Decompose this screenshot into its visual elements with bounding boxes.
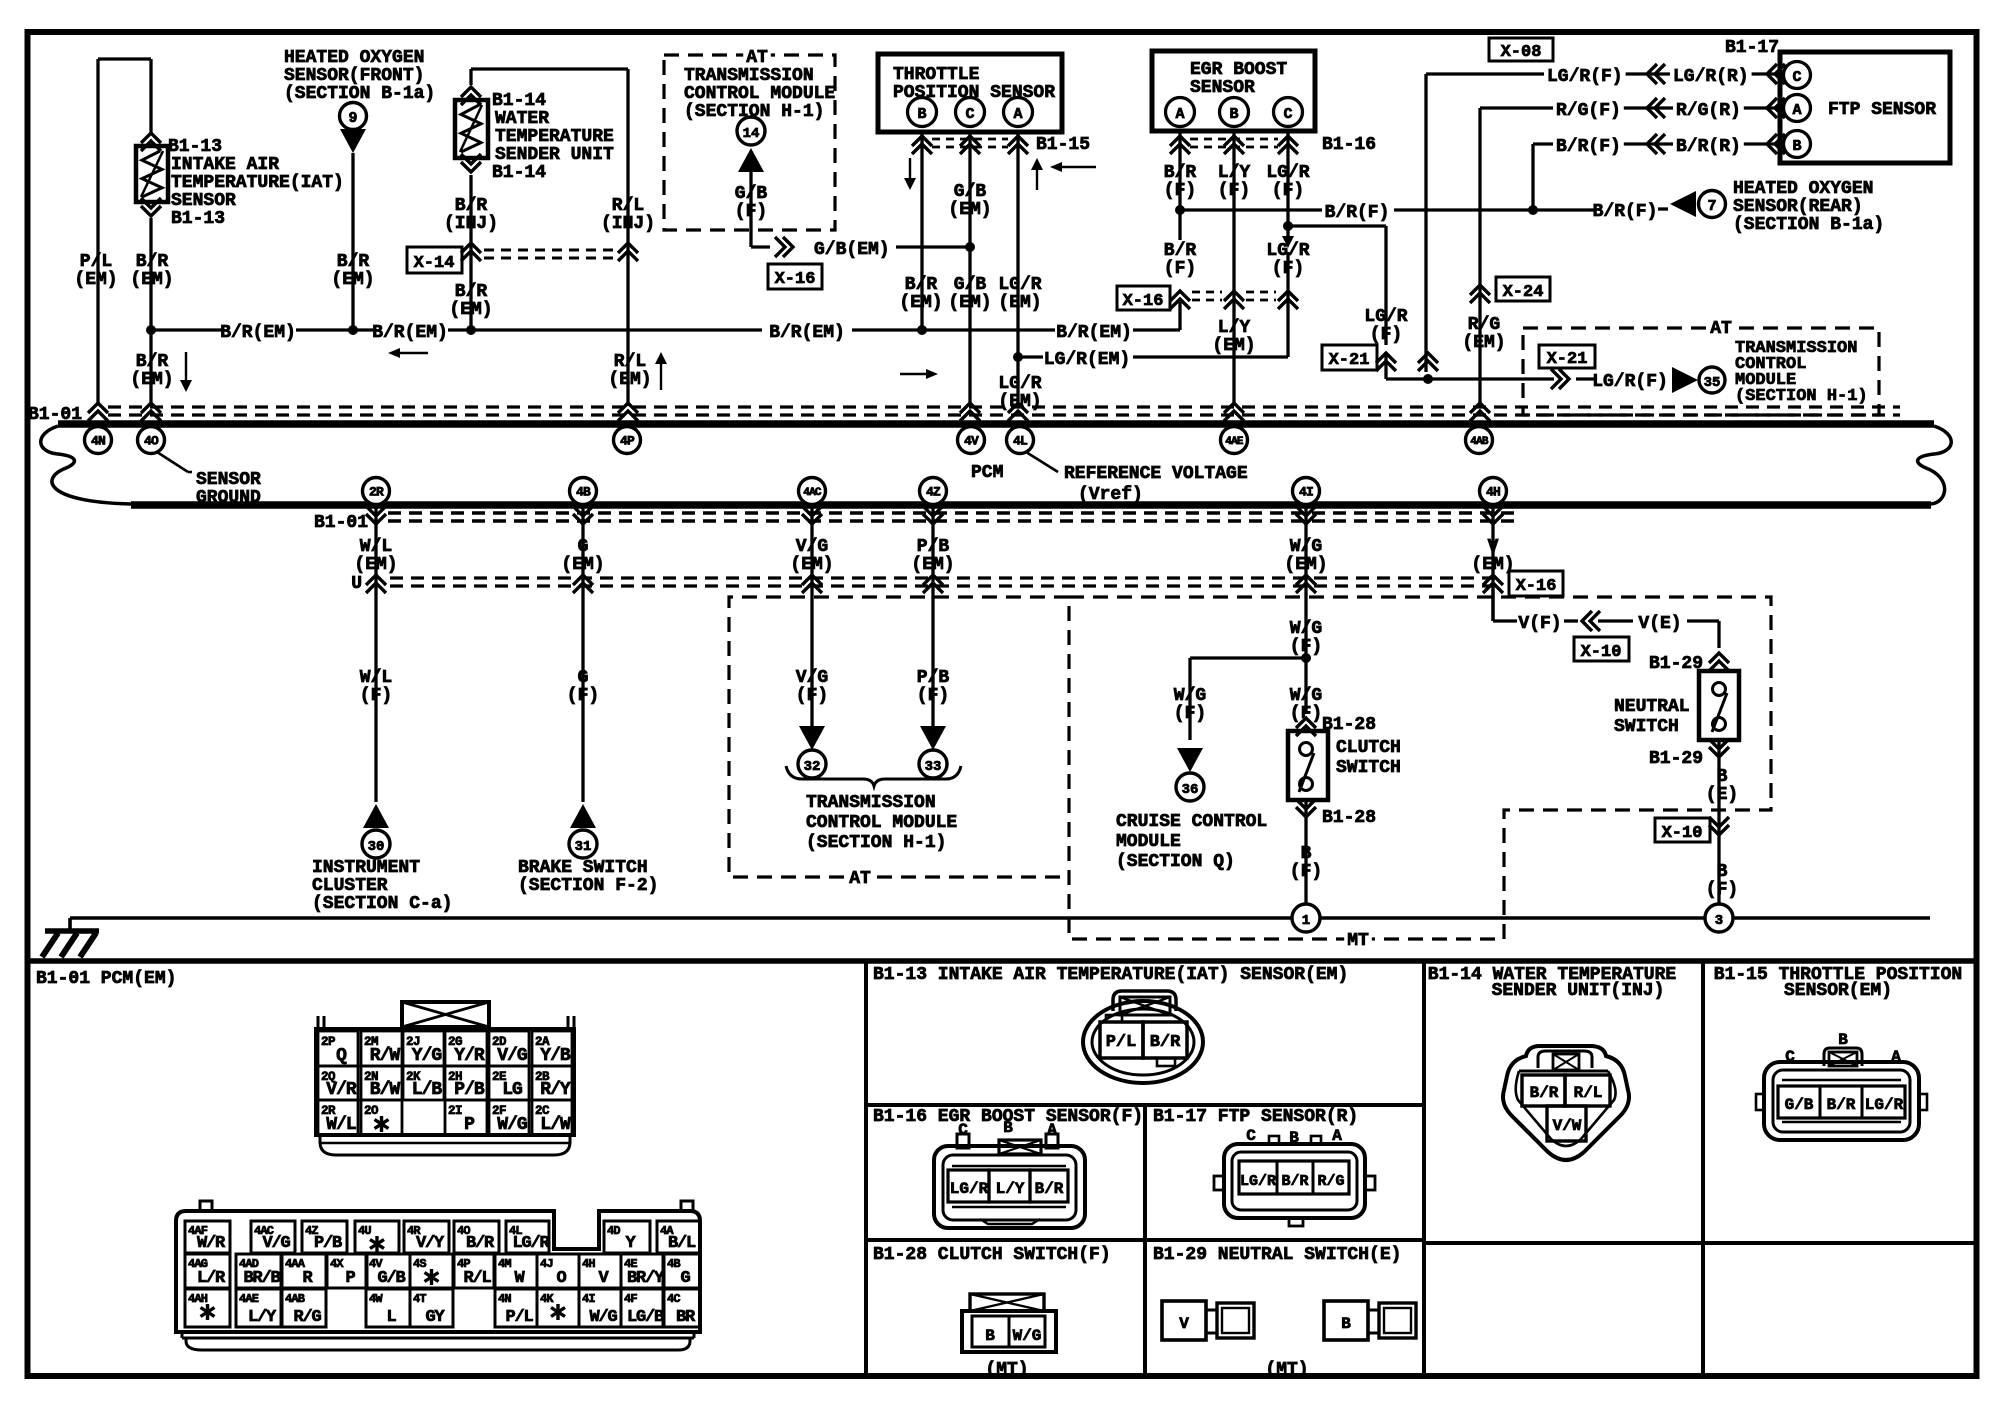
svg-text:FTP SENSOR: FTP SENSOR (1828, 100, 1936, 120)
svg-text:L: L (386, 1308, 396, 1327)
svg-text:LG/R: LG/R (1266, 241, 1309, 261)
node 31 brake switch (569, 830, 597, 858)
svg-text:SWITCH: SWITCH (1336, 758, 1401, 778)
arrow down on TPS B wire (904, 158, 916, 190)
svg-text:B/R: B/R (1827, 1096, 1856, 1114)
svg-text:B/W: B/W (370, 1080, 401, 1100)
arrow into cruise control module (1177, 748, 1203, 772)
AT transmission control module dashed box (left) (664, 45, 835, 230)
labels B/R L/Y LG/R (F) (1164, 163, 1310, 201)
PCM bus upper bar with S-curl ends (41, 424, 1952, 504)
svg-text:L/Y: L/Y (248, 1308, 277, 1327)
label B1-01 top bus (28, 405, 82, 425)
svg-text:V/R: V/R (326, 1080, 357, 1100)
svg-text:B/R: B/R (455, 282, 488, 302)
svg-text:W/L: W/L (326, 1115, 356, 1135)
svg-text:4X: 4X (330, 1257, 344, 1271)
label B/R (EM) WTS (449, 282, 492, 320)
svg-text:(F): (F) (1290, 704, 1322, 724)
svg-text:G/B: G/B (377, 1269, 405, 1288)
label R/L (INJ) (601, 196, 655, 234)
node 33 TCM (919, 750, 947, 778)
label B1-15 section title (1714, 965, 1962, 1001)
transistor clutch switch symbol (1288, 731, 1328, 800)
svg-text:B/R(EM): B/R(EM) (769, 323, 845, 343)
svg-text:B1-01: B1-01 (28, 405, 82, 425)
connector chevron B1-29 bottom (1649, 739, 1729, 769)
connector X-14 label box (407, 247, 462, 273)
svg-text:W/G: W/G (1174, 686, 1206, 706)
connector B1-01 PCM 4x-row plug (176, 1201, 700, 1350)
svg-text:(F): (F) (1706, 880, 1738, 900)
label TRANSMISSION CONTROL MODULE (SECTION H-1) (806, 793, 957, 853)
svg-text:P/B: P/B (454, 1080, 485, 1100)
svg-text:(EM): (EM) (998, 293, 1041, 313)
connector B1-17 FTP plug (1214, 1127, 1375, 1226)
svg-text:EGR BOOST: EGR BOOST (1190, 60, 1287, 80)
wire WTS loop R/L (471, 69, 628, 406)
label B/R (EM) below junction with down arrow (130, 352, 192, 392)
svg-text:(EM): (EM) (449, 300, 492, 320)
svg-text:G: G (578, 668, 589, 688)
labels B/R G/B LG/R (EM) row (899, 275, 1041, 313)
connector B1-16 EGR plug (934, 1119, 1085, 1228)
pin B EGR (1220, 98, 1249, 127)
wire R/G(F) corner (1480, 108, 1551, 406)
label W/L (F) (360, 668, 392, 706)
pin A TPS (1004, 98, 1033, 127)
svg-text:MODULE: MODULE (1116, 832, 1181, 852)
svg-text:G/B(EM): G/B(EM) (814, 240, 890, 260)
arrow left on rail (388, 348, 428, 358)
svg-text:4W: 4W (369, 1292, 383, 1306)
svg-text:INSTRUMENT: INSTRUMENT (312, 858, 420, 878)
connector chevron B1-29 top (1649, 653, 1729, 674)
dashed connector rows below lower bus (388, 513, 1520, 521)
svg-text:CLUSTER: CLUSTER (312, 876, 388, 896)
svg-text:(EM): (EM) (998, 392, 1041, 412)
node 36 cruise control (1176, 773, 1204, 801)
svg-text:4I: 4I (1299, 485, 1313, 500)
svg-text:B1-14: B1-14 (492, 163, 546, 183)
svg-text:LG/R: LG/R (512, 1234, 550, 1253)
svg-text:B/R(F): B/R(F) (1325, 203, 1390, 223)
svg-text:P/L: P/L (1106, 1033, 1137, 1052)
svg-text:V(F): V(F) (1518, 614, 1561, 634)
connector chevron below WTS (461, 154, 481, 172)
svg-text:4AB: 4AB (1470, 436, 1489, 448)
op-amp FTP SENSOR box (1780, 52, 1950, 163)
svg-text:B: B (985, 1327, 995, 1345)
svg-text:(MT): (MT) (1265, 1360, 1308, 1380)
pin 4P (614, 427, 641, 454)
svg-text:LG/R: LG/R (998, 374, 1041, 394)
svg-text:B1-13: B1-13 (168, 137, 222, 157)
svg-text:4H: 4H (1486, 485, 1500, 500)
svg-text:X-21: X-21 (1547, 350, 1588, 369)
svg-text:SENSOR(REAR): SENSOR(REAR) (1733, 197, 1863, 217)
connector chevron B1-28 top (1296, 715, 1376, 736)
label L/Y (EM) (1212, 318, 1255, 356)
arrow into brake switch (570, 804, 596, 828)
node 3 ground joint (1705, 904, 1733, 932)
svg-text:(F): (F) (1370, 325, 1402, 345)
svg-text:(F): (F) (567, 686, 599, 706)
svg-text:R/W: R/W (370, 1046, 401, 1066)
pin 4I (1293, 478, 1320, 505)
svg-text:A: A (1047, 1121, 1057, 1139)
svg-text:GROUND: GROUND (196, 488, 261, 508)
svg-text:R/G: R/G (293, 1308, 321, 1327)
svg-text:THROTTLE: THROTTLE (893, 65, 980, 85)
label W/G (F) left branch (1174, 686, 1206, 724)
label B/R (EM) IAT (130, 252, 173, 290)
svg-text:B1-16: B1-16 (1322, 135, 1376, 155)
ground symbol (42, 931, 99, 957)
svg-text:B/R: B/R (1035, 1180, 1064, 1198)
svg-text:BR: BR (676, 1308, 696, 1327)
svg-text:LG/R: LG/R (1364, 307, 1407, 327)
svg-text:R/G(R): R/G(R) (1676, 101, 1741, 121)
svg-text:SENDER UNIT: SENDER UNIT (495, 145, 614, 165)
svg-text:GY: GY (425, 1308, 445, 1327)
svg-text:CONTROL MODULE: CONTROL MODULE (684, 84, 835, 104)
connector X-08 label box (1489, 38, 1553, 62)
svg-text:LG/R(EM): LG/R(EM) (1044, 350, 1130, 370)
svg-text:4AE: 4AE (239, 1292, 259, 1306)
op-amp EGR BOOST SENSOR box (1152, 51, 1315, 131)
svg-text:P/B: P/B (314, 1234, 342, 1253)
dashed interconnect row with U label and X-16 (351, 571, 1563, 596)
svg-text:B/R: B/R (136, 252, 169, 272)
connector X-16 label box (768, 264, 822, 289)
svg-text:(INJ): (INJ) (601, 214, 655, 234)
ground bus wire (70, 918, 1930, 931)
svg-text:LG/R: LG/R (950, 1180, 989, 1198)
wire B/R(F) corner (1533, 144, 1551, 210)
svg-text:B: B (1003, 1119, 1013, 1137)
svg-text:B/R: B/R (1164, 241, 1197, 261)
connector chevron above WTS (461, 87, 481, 105)
wires from lower bus (376, 505, 1493, 802)
svg-text:V/G: V/G (497, 1046, 527, 1066)
connector X-24 chevrons and label (1470, 277, 1550, 303)
brace under nodes 32 33 (786, 766, 961, 786)
svg-text:4D: 4D (607, 1224, 620, 1238)
svg-text:4T: 4T (413, 1292, 426, 1306)
svg-text:P/L: P/L (505, 1308, 533, 1327)
transistor neutral switch symbol (1699, 671, 1739, 740)
arrow into node 35 (1672, 367, 1698, 393)
label B1-14 section title (1428, 965, 1677, 1001)
svg-text:B/R: B/R (136, 352, 169, 372)
svg-text:G/B: G/B (954, 275, 987, 295)
svg-text:B: B (1717, 767, 1728, 787)
svg-text:B: B (1229, 106, 1238, 123)
svg-text:LG/B: LG/B (627, 1308, 664, 1327)
svg-text:X-14: X-14 (414, 254, 455, 273)
svg-text:CLUTCH: CLUTCH (1336, 738, 1401, 758)
arrow up on TPS A wire (1031, 158, 1043, 190)
svg-text:TRANSMISSION: TRANSMISSION (684, 66, 814, 86)
label B1-13 section title (873, 965, 1348, 985)
svg-text:B/R(EM): B/R(EM) (220, 323, 296, 343)
svg-text:30: 30 (368, 839, 385, 855)
svg-text:B1-01 PCM(EM): B1-01 PCM(EM) (36, 969, 176, 989)
connector B1-01 PCM 2x-row plug (316, 1002, 574, 1155)
node 32 TCM (798, 750, 826, 778)
svg-text:4J: 4J (540, 1257, 553, 1271)
svg-text:V/W: V/W (1553, 1117, 1582, 1135)
svg-text:4M: 4M (498, 1257, 511, 1271)
node 14 TCM (737, 117, 765, 145)
svg-text:(INJ): (INJ) (444, 214, 498, 234)
svg-text:(F): (F) (796, 686, 828, 706)
svg-text:P/L: P/L (80, 252, 112, 272)
wire TPS B sensor ground (917, 132, 927, 335)
label B (E) (1706, 767, 1738, 805)
label P/L (EM) (74, 252, 117, 290)
svg-text:O: O (556, 1269, 566, 1288)
svg-text:B1-13 INTAKE AIR TEMPERATURE(I: B1-13 INTAKE AIR TEMPERATURE(IAT) SENSOR… (873, 965, 1348, 985)
svg-text:B: B (917, 106, 926, 123)
svg-text:4Z: 4Z (926, 485, 941, 500)
svg-text:7: 7 (1707, 198, 1716, 215)
svg-text:4K: 4K (540, 1292, 554, 1306)
svg-text:(EM): (EM) (130, 370, 173, 390)
svg-text:4I: 4I (582, 1292, 595, 1306)
label B (F) neutral (1706, 862, 1738, 900)
svg-text:SENDER UNIT(INJ): SENDER UNIT(INJ) (1492, 981, 1665, 1001)
svg-text:LG/R(F): LG/R(F) (1592, 372, 1668, 392)
svg-text:P/B: P/B (917, 668, 950, 688)
svg-text:Y/R: Y/R (454, 1046, 485, 1066)
svg-text:(EM): (EM) (130, 270, 173, 290)
label PCM (971, 463, 1003, 483)
svg-text:Y/B: Y/B (540, 1046, 571, 1066)
svg-text:W/G: W/G (1013, 1327, 1042, 1345)
op-amp THROTTLE POSITION SENSOR box (878, 54, 1062, 132)
pin C FTP (1784, 62, 1811, 89)
pin C EGR (1274, 98, 1303, 127)
svg-text:X-10: X-10 (1662, 824, 1703, 843)
svg-text:P: P (464, 1115, 475, 1135)
connector B1-16 chevrons below EGR (1170, 135, 1376, 155)
svg-text:L/R: L/R (197, 1269, 226, 1288)
wire W/G junction and branch to cruise control (1190, 653, 1311, 740)
svg-text:4P: 4P (620, 434, 635, 449)
svg-text:TRANSMISSION: TRANSMISSION (806, 793, 936, 813)
svg-text:B/R: B/R (466, 1234, 495, 1253)
svg-text:(SECTION H-1): (SECTION H-1) (1735, 387, 1868, 406)
svg-text:SENSOR(FRONT): SENSOR(FRONT) (284, 66, 424, 86)
svg-text:V(E): V(E) (1638, 614, 1681, 634)
wire EGR C LG/R with junction (1282, 132, 1294, 303)
svg-text:W/G: W/G (589, 1308, 617, 1327)
arrow into TCM 32 (799, 726, 825, 750)
svg-text:G: G (680, 1269, 690, 1288)
svg-text:B/L: B/L (668, 1234, 696, 1253)
svg-text:4F: 4F (624, 1292, 637, 1306)
pin C TPS (956, 98, 985, 127)
wire sensor ground rail B/R(EM) (151, 302, 1180, 343)
pin 2R (363, 478, 390, 505)
wire TPS A LG/R to 4L (1013, 132, 1023, 406)
svg-text:R/L: R/L (1574, 1084, 1603, 1102)
svg-text:(F): (F) (917, 686, 949, 706)
label B/R (F) lower (1164, 241, 1197, 279)
pin A FTP (1784, 95, 1811, 122)
svg-text:B1-15: B1-15 (1036, 135, 1090, 155)
label W/G (F) above junction (1290, 619, 1322, 657)
svg-text:(Vref): (Vref) (1078, 485, 1143, 505)
wire LG/R(EM) link to EGR (1018, 303, 1288, 370)
pin 4O (138, 427, 165, 454)
pin 4Z (920, 478, 947, 505)
svg-text:G/B: G/B (1785, 1096, 1814, 1114)
wire V(F) to neutral switch (1493, 589, 1719, 648)
wire G/B (F) from TCM (751, 172, 770, 247)
svg-text:(EM): (EM) (608, 370, 651, 390)
svg-text:B/R: B/R (455, 196, 488, 216)
wire B (F) to node 1 (1304, 800, 1307, 904)
svg-text:2P: 2P (321, 1035, 335, 1049)
svg-text:X-21: X-21 (1329, 351, 1370, 370)
svg-text:REFERENCE VOLTAGE: REFERENCE VOLTAGE (1064, 464, 1248, 484)
label G (F) (567, 668, 599, 706)
svg-text:(SECTION H-1): (SECTION H-1) (806, 833, 946, 853)
wire B/R(F) to HO2S rear (1588, 202, 1668, 222)
svg-text:WATER: WATER (495, 109, 549, 129)
svg-text:TEMPERATURE(IAT): TEMPERATURE(IAT) (171, 173, 344, 193)
svg-text:4AE: 4AE (1225, 436, 1244, 448)
pin 4AE (1221, 427, 1248, 454)
svg-text:B/R(F): B/R(F) (1593, 202, 1658, 222)
connector B1-29 neutral plug (1162, 1301, 1416, 1380)
svg-text:B/R: B/R (1281, 1173, 1308, 1190)
pin B FTP (1784, 131, 1811, 158)
wire EGR A B/R(F) and rail (1175, 132, 1588, 240)
dashed connector rows above upper bus (108, 407, 1900, 415)
label B1-16 section title (873, 1107, 1143, 1127)
label B1-13 INTAKE AIR TEMPERATURE(IAT) SENSOR (168, 137, 344, 229)
svg-text:X-16: X-16 (775, 270, 816, 289)
svg-text:X-24: X-24 (1503, 283, 1544, 302)
wire B (E) down (1717, 740, 1720, 904)
svg-text:B/R(F): B/R(F) (1556, 137, 1621, 157)
resistor WTS water temperature sender unit B1-14 (455, 100, 488, 158)
svg-text:4C: 4C (667, 1292, 680, 1306)
svg-text:4V: 4V (964, 434, 979, 449)
svg-text:(SECTION B-1a): (SECTION B-1a) (284, 84, 435, 104)
pin B TPS (908, 98, 937, 127)
svg-text:R/G(F): R/G(F) (1556, 101, 1621, 121)
label B1-01 lower bus (314, 513, 368, 533)
arrow right mid (900, 369, 938, 379)
svg-text:R/L: R/L (612, 196, 644, 216)
svg-text:SENSOR: SENSOR (196, 470, 261, 490)
svg-text:4O: 4O (144, 434, 159, 449)
svg-text:B1-28 CLUTCH SWITCH(F): B1-28 CLUTCH SWITCH(F) (873, 1245, 1111, 1265)
svg-text:(SECTION Q): (SECTION Q) (1116, 852, 1235, 872)
wire EGR B L/Y (1232, 132, 1235, 406)
svg-text:B/R(R): B/R(R) (1676, 137, 1741, 157)
arrow left near EGR (1050, 162, 1096, 172)
svg-text:W/G: W/G (1290, 686, 1322, 706)
svg-text:SWITCH: SWITCH (1614, 717, 1679, 737)
svg-text:L/Y: L/Y (996, 1180, 1025, 1198)
label V/G (F) (796, 668, 828, 706)
svg-text:2I: 2I (448, 1104, 462, 1118)
arrow from HO2S front (340, 129, 366, 153)
label REFERENCE VOLTAGE (Vref) with leader (1026, 452, 1248, 505)
label B (F) clutch (1290, 844, 1322, 882)
svg-text:X-16: X-16 (1516, 577, 1557, 596)
svg-text:C: C (958, 1121, 968, 1139)
svg-text:A: A (1175, 106, 1184, 123)
svg-text:35: 35 (1704, 375, 1721, 391)
svg-text:LG/R: LG/R (998, 275, 1041, 295)
svg-text:R/G: R/G (1317, 1173, 1344, 1190)
svg-text:W/L: W/L (360, 668, 392, 688)
svg-text:9: 9 (348, 110, 357, 127)
svg-text:C: C (1792, 69, 1801, 86)
svg-text:W/G: W/G (1290, 619, 1322, 639)
svg-text:32: 32 (804, 759, 821, 775)
svg-text:W/R: W/R (197, 1234, 226, 1253)
table frame lines (27, 961, 1977, 1376)
svg-text:C: C (965, 106, 974, 123)
label TRANSMISSION CONTROL MODULE right (1735, 339, 1868, 406)
svg-text:X-10: X-10 (1581, 643, 1622, 662)
label B1-29 section title (1153, 1245, 1401, 1265)
wire IAT B/R down to sensor-ground rail (146, 218, 156, 406)
label B1-28 section title (873, 1245, 1111, 1265)
svg-text:(SECTION F-2): (SECTION F-2) (518, 876, 658, 896)
svg-text:4B: 4B (667, 1257, 680, 1271)
svg-text:HEATED OXYGEN: HEATED OXYGEN (284, 48, 424, 68)
svg-text:B: B (1341, 1315, 1351, 1333)
node 7 heated oxygen sensor rear (1699, 191, 1726, 218)
svg-text:BR/B: BR/B (243, 1269, 280, 1288)
svg-text:CRUISE CONTROL: CRUISE CONTROL (1116, 812, 1267, 832)
svg-text:2R: 2R (369, 485, 384, 500)
svg-text:B: B (1838, 1031, 1848, 1049)
pin A EGR (1166, 98, 1195, 127)
pin 4AB (1466, 427, 1493, 454)
svg-text:A: A (1792, 102, 1801, 119)
svg-text:4U: 4U (358, 1224, 371, 1238)
svg-text:B1-17: B1-17 (1725, 38, 1779, 58)
pin 4B (570, 478, 597, 505)
svg-text:BR/Y: BR/Y (627, 1269, 665, 1288)
svg-text:PCM: PCM (971, 463, 1003, 483)
label CLUTCH SWITCH (1336, 738, 1401, 778)
svg-text:LG/R(F): LG/R(F) (1547, 67, 1623, 87)
svg-text:(E): (E) (1706, 785, 1738, 805)
pin 4H (1480, 478, 1507, 505)
connector X-16 chevrons on G/B (775, 237, 793, 257)
svg-text:B/R(EM): B/R(EM) (1056, 323, 1132, 343)
svg-text:V/Y: V/Y (416, 1234, 445, 1253)
svg-text:4AC: 4AC (803, 487, 822, 499)
svg-text:4N: 4N (498, 1292, 511, 1306)
svg-text:HEATED OXYGEN: HEATED OXYGEN (1733, 179, 1873, 199)
svg-text:X-16: X-16 (1123, 292, 1164, 311)
connector B1-15 TPS plug (1756, 1031, 1927, 1140)
wire FTP line A R/G (1551, 98, 1785, 121)
label R/G (EM) (1462, 315, 1505, 353)
